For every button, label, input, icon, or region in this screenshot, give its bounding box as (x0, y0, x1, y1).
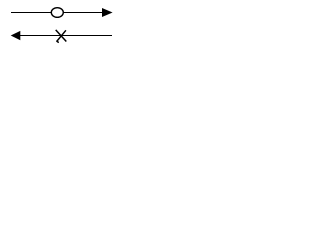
node open-circle (out-of-plane symbol) (51, 8, 63, 18)
wire bottom ray (19, 35, 112, 37)
node cross stroke 2 (into-plane symbol) (57, 30, 66, 42)
arrowhead left (bottom ray) (11, 31, 21, 40)
node cross stroke 1 (into-plane symbol) (56, 30, 67, 42)
wire top ray right segment (63, 12, 103, 14)
arrowhead right (top ray) (102, 8, 113, 17)
wire top ray left segment (11, 12, 52, 14)
